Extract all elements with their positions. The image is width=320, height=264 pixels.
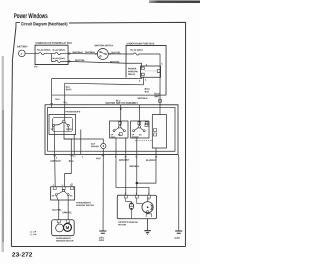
svg-text:23-272: 23-272	[12, 253, 33, 259]
sub-switch L blades	[115, 128, 124, 131]
window lock switch tall box	[152, 115, 166, 148]
wires cluster to box bottom	[115, 138, 117, 154]
svg-text:GRN/WHT: GRN/WHT	[119, 160, 130, 162]
svg-text:BLU: BLU	[69, 161, 74, 163]
connector pin squares	[53, 187, 56, 190]
svg-text:UNDER-HOOD FUSE/RELAY BOX: UNDER-HOOD FUSE/RELAY BOX	[36, 42, 73, 45]
wire L3 feed to master switch	[52, 94, 166, 96]
wire switch pin to master box bottom	[80, 129, 82, 154]
motor brush notch	[146, 214, 151, 217]
bus wire to illumination bulb	[64, 139, 103, 143]
svg-text:PASS: PASS	[111, 136, 117, 139]
master switch assembly inner box	[48, 107, 175, 151]
svg-text:RED/BLU: RED/BLU	[129, 166, 139, 168]
extra pin squares cluster	[119, 133, 122, 136]
master switch assembly outer box	[45, 105, 178, 155]
svg-text:WHT: WHT	[154, 96, 160, 98]
circuit breaker driver	[129, 203, 133, 210]
pin3 stub	[71, 183, 73, 187]
wire junction drop inside box	[50, 54, 52, 62]
svg-text:No.44 (20A): No.44 (20A)	[53, 57, 65, 60]
passenger switch pivot	[62, 189, 64, 191]
svg-text:G401: G401	[175, 237, 181, 240]
motor M2	[63, 223, 71, 231]
svg-text:+: +	[21, 52, 23, 56]
connector arrow into ignition	[96, 53, 98, 55]
wire master to motor pin3 via jog	[116, 154, 149, 195]
connector tick row A exit	[69, 52, 71, 54]
switch blades	[55, 122, 68, 125]
sub-switch R pivot	[138, 126, 140, 128]
relay internal dashed link	[145, 70, 157, 72]
master switch internal wire BLU	[120, 105, 122, 126]
svg-text:PASSENGER'S: PASSENGER'S	[66, 110, 81, 113]
svg-text:(BLK): (BLK)	[66, 89, 72, 91]
fuse No.42	[51, 52, 68, 54]
svg-text:BLU/YEL: BLU/YEL	[52, 210, 62, 212]
battery B1	[19, 50, 26, 57]
frame left border	[11, 27, 16, 247]
svg-text:BLK/YEL: BLK/YEL	[111, 52, 121, 54]
switch contact stems	[54, 126, 68, 134]
svg-text:DN: DN	[139, 134, 142, 136]
svg-text:12: 12	[155, 156, 158, 158]
wire switch to connector pin1	[53, 134, 56, 186]
svg-text:WHT/YEL: WHT/YEL	[110, 62, 121, 64]
wire L2 to master switch left	[65, 83, 144, 85]
wire fuse24 down to relay pin 1	[159, 54, 161, 95]
svg-text:No.24 (20A): No.24 (20A)	[130, 49, 142, 52]
switch contacts	[53, 124, 55, 126]
svg-text:BLK: BLK	[145, 91, 150, 93]
wire row B to relay pin 4	[126, 63, 142, 67]
svg-text:2: 2	[56, 157, 58, 159]
svg-text:DN: DN	[70, 195, 73, 197]
svg-text:1: 1	[161, 63, 163, 65]
svg-text:IGNITION SWITCH: IGNITION SWITCH	[94, 45, 113, 47]
svg-text:WHT/YEL: WHT/YEL	[75, 60, 86, 62]
svg-text:No.42 (40A): No.42 (40A)	[53, 49, 65, 52]
subtitle dash left bracket	[16, 23, 20, 27]
connector arrow out of ignition	[109, 53, 111, 55]
wire bulb to ground G551	[102, 149, 104, 231]
passenger switch connector box	[51, 187, 75, 200]
motor box pin squares	[57, 220, 60, 223]
fuse No.41	[35, 52, 51, 54]
svg-text:BATTERY: BATTERY	[17, 45, 28, 48]
driver switch inner rounded housing	[53, 118, 73, 132]
ground G401	[175, 231, 182, 233]
passenger switch contact stems	[56, 195, 68, 200]
svg-text:BLU/WHT: BLU/WHT	[146, 160, 157, 162]
driver window motor box	[117, 195, 156, 219]
svg-text:WHT/BLK: WHT/BLK	[138, 98, 149, 100]
wire vertical x51.6 down to master switch	[51, 78, 53, 107]
svg-text:WHT/BLU: WHT/BLU	[85, 52, 96, 54]
svg-text:POWER: POWER	[128, 68, 137, 70]
motor box pin squares	[124, 195, 127, 198]
svg-text:GRN/WHT: GRN/WHT	[50, 161, 61, 163]
link line under switch	[135, 139, 152, 141]
junction dot	[136, 182, 138, 184]
svg-text:GRN/YEL: GRN/YEL	[62, 212, 72, 214]
wire master to motor pin1	[125, 154, 127, 195]
svg-text:UNDER-DASH FUSE BOX: UNDER-DASH FUSE BOX	[127, 42, 155, 45]
under-hood fuse/relay box	[35, 45, 68, 64]
frame bottom border	[11, 245, 185, 247]
ignition switch S1	[97, 48, 108, 59]
svg-text:DOWN: DOWN	[66, 129, 73, 131]
ground G551	[99, 231, 106, 233]
sub-switch L contacts	[113, 130, 115, 132]
connector ticks at box bottom	[53, 155, 73, 157]
relay pin squares	[141, 67, 144, 70]
switch stub wire to box bottom	[73, 134, 75, 154]
svg-text:BLU: BLU	[55, 99, 60, 101]
svg-text:BLU/: BLU/	[154, 93, 159, 95]
regulator circle	[56, 224, 64, 232]
frame right border + subtitle rule	[69, 22, 186, 246]
under-dash fuse box	[126, 45, 166, 95]
switch pivot	[63, 120, 65, 122]
wire row B from fuse 44 to under-dash box, label WHT/YEL	[68, 61, 126, 63]
fuse No.24	[126, 53, 160, 55]
wire battery to under-hood box	[25, 53, 35, 55]
wire master lock to junction	[137, 154, 156, 183]
svg-text:C/S: C/S	[34, 66, 38, 68]
sub-switch R blades	[134, 128, 143, 131]
master switch sub-box L	[109, 121, 128, 138]
wires connector to passenger motor	[58, 200, 60, 220]
svg-text:( ) : DN: ( ) : DN	[30, 234, 37, 236]
svg-text:MOTOR: MOTOR	[118, 224, 126, 226]
ground driver motor	[144, 231, 150, 233]
wire vertical x64.7 into master switch, label BLU	[64, 83, 66, 120]
wire pivot feed-through double jog to connector pin2	[64, 122, 71, 186]
page left fold shadow	[2, 56, 5, 252]
svg-text:WINDOW SWITCH: WINDOW SWITCH	[76, 205, 94, 207]
svg-text:5: 5	[82, 156, 84, 158]
power window relay RY1	[141, 66, 161, 77]
svg-text:BLK: BLK	[96, 158, 101, 160]
wire relay coil pin 3 down	[143, 77, 145, 85]
master switch sub-box R	[130, 121, 149, 138]
svg-text:BLU/: BLU/	[145, 89, 150, 91]
svg-text:BLU: BLU	[116, 100, 121, 102]
wire motor to ground	[147, 219, 149, 231]
wire ignition to under-dash box, label BLK/YEL	[108, 53, 126, 55]
svg-text:RELAY: RELAY	[128, 73, 136, 76]
svg-text:G551: G551	[99, 240, 105, 242]
illumination bulb L1	[101, 143, 106, 148]
passenger switch contacts	[55, 193, 57, 195]
svg-text:WINDOW MOTOR: WINDOW MOTOR	[56, 240, 74, 242]
passenger switch blades	[57, 191, 67, 194]
wire x160 into master switch, label BLU/WHT	[159, 95, 161, 115]
wire master switch to ground G401	[177, 154, 180, 231]
connector tick row B exit	[69, 60, 71, 62]
svg-text:MASTER SWITCH ASSEMBLY: MASTER SWITCH ASSEMBLY	[106, 102, 139, 105]
svg-text:WHT/BLU: WHT/BLU	[73, 52, 84, 54]
wire row A to ignition switch, label WHT/BLU	[68, 53, 96, 55]
svg-text:UP: UP	[52, 195, 55, 197]
passenger window motor box	[52, 220, 75, 236]
master switch internal wire WHT/BLK	[139, 105, 141, 126]
connector circle on x160 wire	[158, 99, 161, 102]
wire L1 relay pin2 output to left	[52, 77, 142, 78]
sub-box L pin square	[119, 122, 122, 125]
motor M1	[142, 202, 153, 213]
tall box pin squares	[154, 129, 157, 132]
svg-text:WINDOW: WINDOW	[128, 71, 139, 73]
svg-text:2: 2	[139, 80, 141, 82]
svg-text:DRIVER: DRIVER	[91, 146, 99, 148]
svg-text:Power Windows: Power Windows	[14, 13, 48, 20]
fuse No.44	[51, 60, 68, 62]
svg-text:M: M	[66, 225, 70, 230]
driver switch box	[49, 114, 76, 134]
sub-switch L pivot	[119, 126, 121, 128]
wire master to motor pin2	[136, 154, 138, 195]
svg-text:No.41 (100A): No.41 (100A)	[37, 49, 51, 52]
svg-text:Circuit Diagram (Hatchback): Circuit Diagram (Hatchback)	[21, 21, 68, 26]
svg-text:3: 3	[145, 80, 147, 82]
sub-switch R contacts	[133, 130, 135, 132]
sub-box R pin square	[138, 122, 141, 125]
svg-text:UP: UP	[51, 129, 54, 131]
svg-text:DRIVER: DRIVER	[132, 137, 139, 139]
svg-text:PASSENGER'S: PASSENGER'S	[76, 201, 91, 204]
